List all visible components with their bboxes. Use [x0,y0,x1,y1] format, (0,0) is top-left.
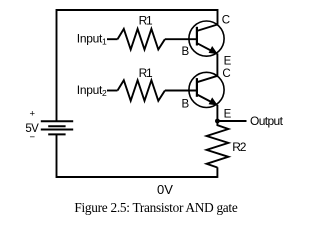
wire: left rail lower segment and bottom 0V rail [57,134,218,177]
svg-text:0V: 0V [157,182,173,197]
transistor Q2 base bar [196,78,198,97]
svg-text:C: C [222,15,230,27]
battery 5V: plate long lower [41,129,73,131]
transistor Q1 emitter arrowhead [209,47,217,54]
svg-text:R1: R1 [139,66,153,80]
svg-text:B: B [182,46,190,58]
wire: output stub [217,120,246,122]
svg-text:R2: R2 [232,140,246,154]
wire: R1 lower to Q2 base [165,90,196,92]
wire: Input1 lead-in [107,38,118,40]
svg-text:Input1: Input1 [77,32,107,47]
transistor Q2 circle [189,72,224,107]
transistor Q1 circle [189,21,224,56]
svg-text:−: − [30,132,36,143]
wire: Q2 emitter lead down to output node [216,105,218,121]
battery 5V: plate short upper [48,125,65,127]
transistor Q1 base bar [196,27,198,46]
wire: R1 upper to Q1 base [165,38,196,40]
svg-text:Output: Output [250,114,284,128]
wire: Q1 emitter to Q2 collector link [216,53,218,76]
transistor Q2 emitter stroke [197,95,217,105]
battery 5V: plate short bottom [48,133,65,135]
transistor Q2 emitter arrowhead [209,98,217,105]
svg-text:+: + [30,108,36,119]
resistor R1 (upper) zigzag [118,29,165,50]
wire: top positive rail and left rail upper segment [57,10,218,121]
resistor R1 (lower) zigzag [118,80,165,101]
svg-text:R1: R1 [139,13,153,27]
svg-text:E: E [224,109,232,121]
svg-text:Input2: Input2 [77,83,107,98]
transistor Q1 collector stroke [197,25,218,31]
svg-text:E: E [224,56,232,68]
transistor Q1 emitter stroke [197,43,217,53]
transistor Q2 collector stroke [197,76,218,82]
wire: Q1 collector drop from top rail [217,9,219,25]
wire: R2 bottom lead [216,167,218,178]
resistor R2 zigzag [207,121,229,168]
wire: Input2 lead-in [107,90,118,92]
battery 5V: plate long top [41,120,73,122]
node: output junction dot [215,119,220,124]
svg-text:B: B [182,98,190,110]
svg-text:Figure 2.5: Transistor AND gat: Figure 2.5: Transistor AND gate [74,200,237,215]
svg-text:C: C [222,68,230,80]
